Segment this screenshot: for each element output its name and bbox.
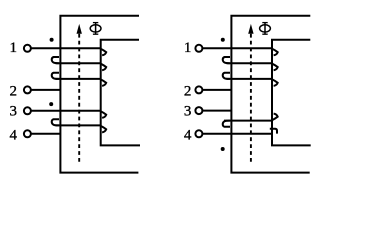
wire terminal 4 across core (right figure) xyxy=(202,133,272,135)
flux arrowhead (left figure) xyxy=(77,24,82,34)
winding bump 2 left side (right figure) xyxy=(223,73,230,79)
winding hook right of wire 3 (left figure) xyxy=(101,111,106,117)
terminal 2 (right figure) xyxy=(195,86,202,93)
winding hook right of line 3 (left figure) xyxy=(101,80,106,86)
core outer outline (left figure) xyxy=(60,16,139,173)
flux arrowhead (right figure) xyxy=(248,24,253,34)
winding hook (upward) right of line A (right figure) xyxy=(272,114,277,120)
winding crossing line B (left figure) xyxy=(56,124,101,126)
terminal 2 (left figure) xyxy=(24,86,31,93)
core inner outline (right figure) xyxy=(272,40,311,146)
winding hook right of line 3 (right figure) xyxy=(272,80,277,86)
terminal 4 (right figure) xyxy=(195,130,202,137)
winding crossing line 3 (right figure) xyxy=(227,78,273,80)
polarity dot near terminal 1 (right figure) xyxy=(221,38,225,42)
wire terminal 2 to core edge (left figure) xyxy=(31,89,61,91)
core inner outline (left figure) xyxy=(101,40,140,146)
terminal 1 (right figure) xyxy=(195,45,202,52)
core outer outline (right figure) xyxy=(231,16,310,173)
wire terminal 1 to core (right figure) xyxy=(202,47,272,49)
svg-text:4: 4 xyxy=(184,127,192,143)
terminal 4 (left figure) xyxy=(24,130,31,137)
terminal 3 (left figure) xyxy=(24,107,31,114)
flux label PHI (left figure) xyxy=(90,22,101,34)
winding hook (upward) right of wire 4 (right figure) xyxy=(270,129,277,134)
winding crossing line 2 (right figure) xyxy=(227,62,273,64)
winding crossing line 2 (left figure) xyxy=(56,62,101,64)
svg-text:2: 2 xyxy=(184,84,192,100)
winding bump 2 left side (left figure) xyxy=(52,73,59,79)
wire terminal 4 to core edge (left figure) xyxy=(31,133,61,135)
svg-text:1: 1 xyxy=(10,40,18,56)
winding bump 3 left side (left figure) xyxy=(52,119,59,125)
wire terminal 3 to core (left figure) xyxy=(31,110,101,112)
svg-text:4: 4 xyxy=(10,127,18,143)
flux label PHI (right figure) xyxy=(260,22,271,34)
svg-text:2: 2 xyxy=(10,84,18,100)
polarity dot near terminal 3 (left figure) xyxy=(49,102,53,106)
wire terminal 1 to core (left figure) xyxy=(31,47,101,49)
winding bump 3 left side below line A (right figure) xyxy=(223,121,230,127)
winding crossing line 3 (left figure) xyxy=(56,78,101,80)
winding hook right of line 2 (left figure) xyxy=(101,64,106,70)
flux line (dashed, left figure) xyxy=(78,34,80,165)
svg-text:3: 3 xyxy=(184,104,192,120)
polarity dot near terminal 1 (left figure) xyxy=(50,38,54,42)
polarity dot near terminal 4 (right figure) xyxy=(221,147,225,151)
flux line (dashed, right figure) xyxy=(250,34,252,165)
winding hook right of line 2 (right figure) xyxy=(272,64,277,70)
svg-text:3: 3 xyxy=(10,104,18,120)
winding hook right of wire 1 (left figure) xyxy=(101,49,106,55)
wire terminal 3 to core edge (right figure) xyxy=(202,110,231,112)
terminal 3 (right figure) xyxy=(195,107,202,114)
terminal 1 (left figure) xyxy=(24,45,31,52)
winding bump 1 left side (right figure) xyxy=(223,57,230,63)
svg-text:1: 1 xyxy=(184,40,192,56)
winding hook right of line B (left figure) xyxy=(101,126,106,132)
winding bump 1 left side (left figure) xyxy=(52,57,59,63)
winding crossing line A (right figure) xyxy=(224,120,272,122)
winding hook right of wire 1 (right figure) xyxy=(272,49,277,55)
wire terminal 2 to core edge (right figure) xyxy=(202,89,231,91)
